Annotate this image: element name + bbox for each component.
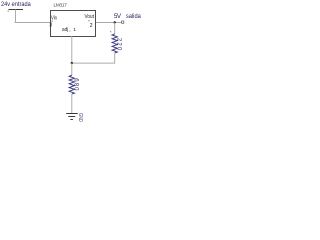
resistor R1 xyxy=(112,34,117,53)
pin mark Vin xyxy=(52,21,53,22)
wire W8 from node ADJ down to R2 xyxy=(71,63,73,75)
wire W5 from R1 down to adj net xyxy=(114,53,116,64)
ground bar 2 xyxy=(68,116,75,118)
svg-text:GND: GND xyxy=(77,113,83,122)
terminal T1 tick xyxy=(8,11,9,12)
pin speck R2 top xyxy=(70,75,71,76)
pin speck R1 top xyxy=(110,31,111,32)
svg-text:Vin: Vin xyxy=(51,15,57,21)
pin mark Vout xyxy=(88,20,89,21)
svg-text:680: 680 xyxy=(73,78,79,91)
junction dot node ADJ xyxy=(71,62,73,64)
ground bar 1 xyxy=(66,113,78,115)
wire W2 horizontal to Vin pin xyxy=(15,22,51,24)
svg-text:adj: adj xyxy=(62,27,68,33)
wire W7 adj pin down from box xyxy=(71,36,73,63)
regulator U1 LM317 body xyxy=(51,11,96,37)
wire W1 vertical from input terminal xyxy=(15,10,17,24)
svg-text:5V: 5V xyxy=(114,13,122,20)
wire W6 horizontal adj net xyxy=(72,62,115,64)
ground bar 3 xyxy=(70,119,73,121)
resistor R2 xyxy=(69,75,74,94)
svg-text:24v entrada: 24v entrada xyxy=(1,1,31,8)
wire W9 from R2 down to ground xyxy=(71,94,73,113)
output terminal marker xyxy=(122,21,124,23)
svg-text:220: 220 xyxy=(116,38,122,51)
wire W4 from node OUT down to R1 xyxy=(114,23,116,35)
pin mark adj xyxy=(69,31,70,32)
svg-text:Vout: Vout xyxy=(85,14,95,20)
svg-text:salida: salida xyxy=(126,13,141,20)
junction dot node OUT xyxy=(114,21,116,23)
svg-text:LM317: LM317 xyxy=(54,2,68,7)
terminal T1 bar xyxy=(9,9,24,11)
svg-text:3: 3 xyxy=(49,23,52,29)
wire W3 from Vout pin to output terminal xyxy=(96,22,121,24)
svg-text:1: 1 xyxy=(73,27,76,32)
svg-text:2: 2 xyxy=(90,23,93,29)
